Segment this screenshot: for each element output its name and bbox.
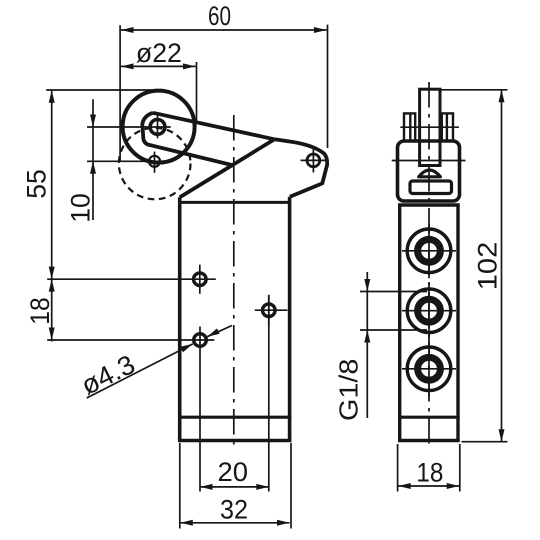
dimension 18 (side) xyxy=(398,444,460,492)
pivot lug outline xyxy=(275,139,328,197)
svg-text:32: 32 xyxy=(220,494,248,524)
pivot pin crosshair xyxy=(312,148,314,173)
svg-text:60: 60 xyxy=(208,1,231,31)
port 1 xyxy=(407,229,451,273)
roller circle xyxy=(123,91,195,163)
roller pin crosshair xyxy=(157,114,159,138)
svg-text:18: 18 xyxy=(25,297,55,325)
svg-text:102: 102 xyxy=(473,242,503,291)
fork arm left xyxy=(404,113,415,141)
svg-text:G1/8: G1/8 xyxy=(336,359,364,422)
dimension 102 xyxy=(440,90,508,442)
port 3 xyxy=(407,347,451,391)
pivot pin xyxy=(307,154,320,167)
port 2 xyxy=(407,289,451,333)
dimension ø22 xyxy=(121,38,197,122)
svg-text:10: 10 xyxy=(66,193,96,223)
dimension G1/8 xyxy=(336,272,428,421)
dimension 10 xyxy=(66,99,171,222)
svg-text:18: 18 xyxy=(416,458,443,488)
head angled face xyxy=(180,139,275,197)
dashed position pin xyxy=(149,156,160,167)
roller dashed position circle xyxy=(119,128,191,200)
head housing (side) xyxy=(398,141,460,201)
fork arm right xyxy=(442,113,453,141)
dimension 18 xyxy=(25,279,55,341)
roller pin xyxy=(150,120,165,135)
dimension 55 xyxy=(22,90,158,279)
mounting hole 3 xyxy=(263,304,276,317)
side centerline xyxy=(428,82,430,448)
mounting hole 1 xyxy=(194,273,207,286)
roller axle line xyxy=(400,126,459,128)
lever arm xyxy=(142,113,274,166)
svg-text:55: 55 xyxy=(22,169,52,199)
valve body side view xyxy=(398,205,460,441)
dimension 60 xyxy=(120,1,327,162)
svg-text:ø4.3: ø4.3 xyxy=(76,349,140,401)
dimension ø4.3 leader xyxy=(76,326,232,401)
pivot axle line xyxy=(392,160,466,162)
valve body front view xyxy=(178,197,291,441)
mounting hole 2 xyxy=(194,334,207,347)
dimension 20 xyxy=(200,295,269,492)
svg-text:20: 20 xyxy=(218,457,249,487)
dimension 32 xyxy=(180,443,291,529)
seat block xyxy=(410,181,452,194)
plunger dome xyxy=(419,170,441,177)
roller (side) xyxy=(420,89,440,165)
body centerline xyxy=(233,115,235,448)
svg-text:ø22: ø22 xyxy=(136,38,182,68)
